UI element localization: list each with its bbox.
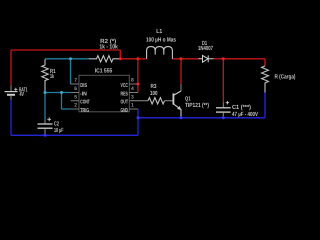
wire blue battery minus down xyxy=(10,100,12,136)
diode D1 xyxy=(199,55,214,62)
wire red right drop to R load xyxy=(264,59,266,66)
wire red left rail from battery + up to top rail xyxy=(10,50,12,86)
svg-text:R3: R3 xyxy=(151,83,158,90)
svg-text:6: 6 xyxy=(74,86,77,92)
wire blue rail step up xyxy=(137,118,139,136)
svg-text:TIP121 (**): TIP121 (**) xyxy=(185,102,209,109)
svg-text:RES: RES xyxy=(121,91,129,97)
svg-text:7: 7 xyxy=(74,78,77,84)
wire red collector drop from top row to Q1 xyxy=(180,59,182,84)
svg-text:8: 8 xyxy=(131,78,134,84)
svg-text:1N4007: 1N4007 xyxy=(198,45,213,52)
svg-text:1k: 1k xyxy=(50,73,54,80)
svg-text:3: 3 xyxy=(131,95,134,101)
svg-text:OUT: OUT xyxy=(121,100,129,106)
svg-text:DIS: DIS xyxy=(80,83,87,89)
svg-text:47 µF - 400V: 47 µF - 400V xyxy=(232,111,258,118)
wire red top rail xyxy=(11,49,120,51)
wire red from D1 cathode to right corner xyxy=(214,58,266,60)
wire red from R2 junction to L1 left xyxy=(120,58,147,60)
svg-text:5: 5 xyxy=(74,95,77,101)
svg-text:Q1: Q1 xyxy=(185,96,191,103)
svg-text:2: 2 xyxy=(74,103,77,109)
wire red VCC drop to pins 8 and 4 xyxy=(137,59,139,93)
svg-text:4V: 4V xyxy=(20,91,25,98)
battery BAT1 xyxy=(5,86,18,100)
pin stubs left xyxy=(71,84,79,109)
wire red drop from D1 net to C1 + xyxy=(222,59,224,103)
wire blue bottom rail xyxy=(11,134,138,136)
svg-text:TRIG: TRIG xyxy=(80,108,89,114)
wire blue pin1 GND drop xyxy=(137,109,139,118)
svg-text:1k - 10k: 1k - 10k xyxy=(99,44,118,51)
junction dots teal xyxy=(44,57,73,94)
wire red from L1 right to D1 anode xyxy=(172,58,198,60)
svg-text:C2: C2 xyxy=(54,120,59,127)
svg-text:-IN: -IN xyxy=(80,91,87,97)
wire teal pin2 row xyxy=(62,108,71,110)
wire blue R load bottom xyxy=(264,93,266,118)
resistor R (Carga) xyxy=(262,66,269,93)
svg-text:CONT: CONT xyxy=(80,100,90,106)
inductor L1 xyxy=(147,47,173,59)
svg-text:C1 (***): C1 (***) xyxy=(232,104,251,111)
svg-text:R (Carga): R (Carga) xyxy=(275,74,296,81)
svg-text:100 µH o Mas: 100 µH o Mas xyxy=(146,36,177,43)
svg-text:L1: L1 xyxy=(156,28,163,35)
svg-text:10 µF: 10 µF xyxy=(54,127,64,134)
resistor R1 xyxy=(42,59,48,92)
pin stubs right xyxy=(129,84,138,109)
svg-text:4: 4 xyxy=(131,86,134,92)
wire teal from R1 top to R2 left lead xyxy=(45,58,89,60)
wire teal pin6 row from R1 bottom xyxy=(45,92,71,94)
wire red drop from top rail to R2 output row xyxy=(119,50,121,59)
wire blue ground row to load xyxy=(138,117,265,119)
svg-text:1: 1 xyxy=(131,103,134,109)
capacitor C2 xyxy=(38,117,53,134)
junction dots blue xyxy=(44,116,225,137)
wire teal down to C2 xyxy=(44,93,46,120)
svg-text:GND: GND xyxy=(121,108,129,114)
resistor R2 xyxy=(89,56,120,62)
capacitor C1 xyxy=(216,101,231,117)
resistor R3 xyxy=(129,100,173,102)
svg-text:VCC: VCC xyxy=(121,83,129,89)
wire teal DIS vertical to pin 7 xyxy=(70,59,72,84)
junction dots red xyxy=(119,57,225,85)
transistor Q1 xyxy=(173,91,181,118)
svg-text:IC1 555: IC1 555 xyxy=(95,68,113,75)
wire teal vertical pin6 to pin2 xyxy=(61,93,63,110)
svg-text:100: 100 xyxy=(150,90,158,97)
op-amp/IC U1 box IC1 555 xyxy=(79,75,129,112)
